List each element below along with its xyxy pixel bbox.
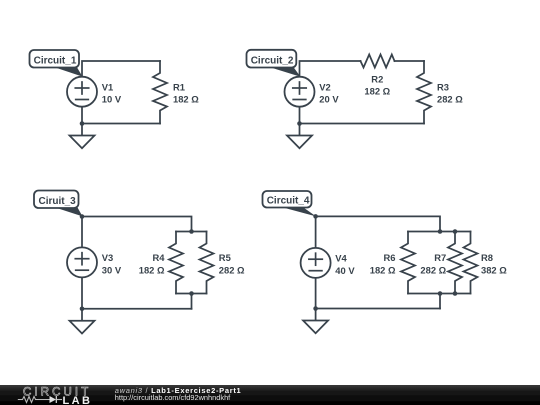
- svg-text:Circuit_2: Circuit_2: [251, 55, 294, 66]
- wire top from V1 to R1: [82, 61, 160, 77]
- svg-text:182 Ω: 182 Ω: [139, 264, 165, 275]
- node dot rail bottom c4 right: [453, 291, 458, 296]
- svg-text:V4: V4: [335, 253, 347, 264]
- wire bottom rail c4: [408, 293, 471, 295]
- svg-text:282 Ω: 282 Ω: [219, 264, 245, 275]
- svg-text:182 Ω: 182 Ω: [370, 264, 396, 275]
- svg-text:V1: V1: [102, 82, 113, 93]
- wire top rail: [176, 231, 207, 233]
- svg-text:10 V: 10 V: [102, 94, 122, 105]
- resistor R6: [401, 232, 415, 294]
- label Ciruit_3: [53, 207, 83, 217]
- svg-text:20 V: 20 V: [319, 94, 339, 105]
- wire bottom to V3: [82, 308, 192, 310]
- resistor R7: [448, 232, 462, 294]
- ground circuit1: [81, 124, 83, 136]
- wire V3 bottom lead: [81, 277, 83, 308]
- voltage source V1: [67, 77, 97, 107]
- wire bottom R3 to V2: [300, 123, 425, 125]
- svg-text:182 Ω: 182 Ω: [364, 86, 390, 97]
- wire top V3 to parallel: [82, 217, 192, 232]
- wire bottom to V4: [316, 308, 440, 310]
- svg-text:182 Ω: 182 Ω: [173, 94, 199, 105]
- node dot rail top c4 right: [453, 229, 458, 234]
- node junction dot circuit2: [297, 121, 302, 126]
- svg-text:R7: R7: [434, 252, 446, 263]
- resistor R3: [417, 61, 431, 124]
- svg-text:R6: R6: [384, 252, 396, 263]
- voltage source V4: [301, 248, 331, 278]
- svg-text:http://circuitlab.com/cfd92wnh: http://circuitlab.com/cfd92wnhndkhf: [115, 393, 231, 402]
- wire V1 bottom lead: [81, 107, 83, 124]
- svg-text:R4: R4: [153, 252, 166, 263]
- node dot rail top c4 left: [438, 229, 443, 234]
- svg-text:LAB: LAB: [63, 395, 93, 405]
- resistor R5: [200, 232, 214, 294]
- wire V2 bottom lead: [299, 107, 301, 124]
- svg-text:R5: R5: [219, 252, 231, 263]
- wire V4 bottom lead: [315, 278, 317, 309]
- svg-text:40 V: 40 V: [335, 265, 355, 276]
- wire bottom from R1 to V1: [82, 123, 160, 125]
- wire parallel to bottom: [191, 294, 193, 309]
- resistor R1: [153, 61, 167, 124]
- ground circuit2: [299, 124, 301, 136]
- voltage source V3: [67, 247, 97, 277]
- svg-text:282 Ω: 282 Ω: [437, 94, 463, 105]
- svg-text:30 V: 30 V: [102, 264, 122, 275]
- ground circuit4: [315, 309, 317, 321]
- logo diode: [50, 396, 57, 403]
- svg-text:V2: V2: [319, 82, 330, 93]
- voltage source V2: [285, 77, 315, 107]
- wire top V4 to parallel: [316, 216, 440, 231]
- svg-text:Ciruit_3: Ciruit_3: [39, 196, 77, 207]
- wire V3 top lead: [81, 217, 83, 248]
- node junction dot circuit1: [80, 121, 85, 126]
- wire parallel to bottom c4: [439, 294, 441, 309]
- svg-text:R1: R1: [173, 82, 185, 93]
- node dot rail top circuit3: [189, 229, 194, 234]
- svg-text:382 Ω: 382 Ω: [481, 264, 507, 275]
- svg-text:282 Ω: 282 Ω: [420, 264, 446, 275]
- node dot top-left circuit3: [80, 214, 85, 219]
- node dot bottom-left circuit3: [80, 307, 85, 312]
- label Circuit_4: [277, 206, 317, 217]
- svg-text:Circuit_4: Circuit_4: [267, 195, 310, 206]
- ground circuit3: [81, 309, 83, 321]
- resistor R8: [464, 232, 478, 294]
- wire V4 top lead: [315, 216, 317, 248]
- wire bottom rail: [176, 293, 207, 295]
- wire top V2 to R2: [300, 61, 361, 77]
- node dot rail bottom c4 left: [438, 291, 443, 296]
- wire top rail c4: [408, 231, 471, 233]
- logo resistor squiggle: [18, 397, 50, 403]
- node dot bottom-left circuit4: [313, 306, 318, 311]
- node dot rail bottom circuit3: [189, 291, 194, 296]
- svg-text:Circuit_1: Circuit_1: [34, 55, 77, 66]
- label Circuit_2: [268, 67, 301, 77]
- resistor R4: [169, 232, 183, 294]
- label Circuit_1: [50, 66, 83, 77]
- resistor R2: [361, 55, 395, 68]
- wire R2 to R3: [395, 60, 425, 62]
- svg-text:R2: R2: [371, 74, 383, 85]
- svg-text:R8: R8: [481, 252, 493, 263]
- svg-text:V3: V3: [102, 252, 113, 263]
- svg-text:R3: R3: [437, 82, 449, 93]
- node dot top-left circuit4: [313, 214, 318, 219]
